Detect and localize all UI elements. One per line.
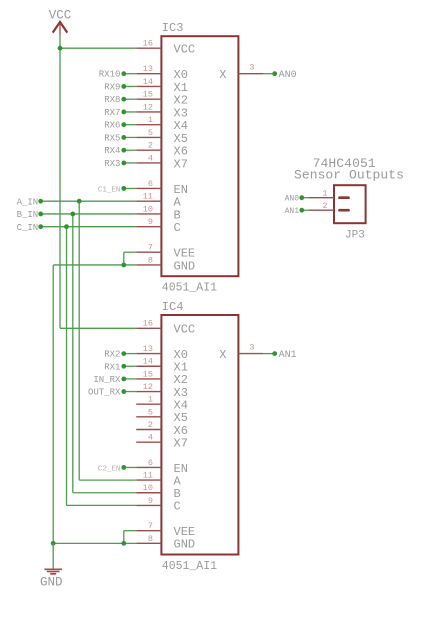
- node RX1: [121, 364, 126, 369]
- svg-text:VCC: VCC: [174, 323, 196, 337]
- svg-text:2: 2: [148, 141, 153, 151]
- wire AN1: [263, 353, 274, 355]
- svg-text:C_IN: C_IN: [17, 223, 39, 233]
- svg-text:AN0: AN0: [279, 70, 297, 81]
- IC4 pin 11 A: [136, 479, 161, 481]
- svg-text:13: 13: [143, 344, 153, 354]
- svg-text:RX7: RX7: [104, 108, 120, 118]
- node C1_EN: [121, 186, 126, 191]
- wire stub IN_RX: [124, 378, 136, 380]
- IC4 pin 4 X7: [136, 441, 161, 443]
- svg-text:7: 7: [148, 521, 153, 531]
- svg-text:15: 15: [143, 369, 153, 379]
- svg-text:IC3: IC3: [162, 21, 184, 35]
- svg-text:C1_EN: C1_EN: [98, 186, 121, 194]
- wire stub RX5: [124, 136, 136, 138]
- svg-text:1: 1: [148, 395, 153, 405]
- svg-text:VCC: VCC: [174, 43, 196, 57]
- IC3 pin 14 X1: [136, 85, 161, 87]
- IC4 pin 10 B: [136, 492, 161, 494]
- svg-text:OUT_RX: OUT_RX: [88, 388, 121, 398]
- svg-text:RX8: RX8: [104, 95, 120, 105]
- IC3 pin 6 EN: [136, 187, 161, 189]
- wire C_IN vertical to IC4: [66, 227, 68, 506]
- wire stub C1_EN: [124, 187, 136, 189]
- svg-text:9: 9: [148, 217, 153, 227]
- IC4 pin 5 X5: [136, 416, 161, 418]
- svg-text:C: C: [174, 500, 181, 514]
- svg-text:X7: X7: [174, 436, 188, 450]
- JP3 pin 2: [309, 209, 334, 211]
- IC4 pin 14 X1: [136, 365, 161, 367]
- wire IC4 GND to left: [53, 542, 136, 544]
- junction C_IN: [64, 224, 69, 229]
- wire B_IN to IC3: [41, 213, 137, 215]
- svg-text:C2_EN: C2_EN: [98, 465, 121, 473]
- node B_IN start: [38, 212, 43, 217]
- wire AN1 to JP3: [302, 209, 309, 211]
- IC4 pin 12 X3: [136, 391, 161, 393]
- node RX5: [121, 135, 126, 140]
- IC4 pin 2 X6: [136, 429, 161, 431]
- svg-text:8: 8: [148, 255, 153, 265]
- node RX2: [121, 351, 126, 356]
- wire AN0 to JP3: [302, 197, 309, 199]
- svg-text:IC4: IC4: [162, 300, 184, 314]
- svg-text:4051_AI1: 4051_AI1: [162, 560, 217, 573]
- node RX10: [121, 71, 126, 76]
- wire stub RX9: [124, 85, 136, 87]
- wire C_IN to IC4 pin: [67, 504, 137, 506]
- IC4 pin 1 X4: [136, 403, 161, 405]
- svg-text:5: 5: [148, 407, 153, 417]
- svg-text:AN0: AN0: [285, 195, 300, 204]
- connector JP3 body: [334, 185, 366, 223]
- junction GND net: [51, 541, 56, 546]
- node RX4: [121, 148, 126, 153]
- IC4 pin 6 EN: [136, 466, 161, 468]
- IC3 pin 2 X6: [136, 149, 161, 151]
- IC3 pin 3 X output: [238, 73, 263, 75]
- wire VCC to IC4 pin 16: [60, 327, 136, 329]
- wire stub RX10: [124, 73, 136, 75]
- svg-text:15: 15: [143, 90, 153, 100]
- IC3 pin 8 GND: [136, 264, 161, 266]
- IC3 pin 7 VEE: [136, 251, 161, 253]
- wire VCC net vertical: [59, 35, 61, 328]
- svg-text:AN1: AN1: [279, 350, 297, 361]
- node A_IN start: [38, 199, 43, 204]
- wire IC3 VEE drop: [124, 251, 136, 253]
- svg-text:3: 3: [249, 63, 254, 73]
- IC4 pin 7 VEE: [136, 530, 161, 532]
- IC4 pin 13 X0: [136, 353, 161, 355]
- svg-text:AN1: AN1: [285, 207, 300, 216]
- svg-text:RX3: RX3: [104, 159, 120, 169]
- IC4 pin 9 C: [136, 504, 161, 506]
- IC4 pin 15 X2: [136, 378, 161, 380]
- svg-text:RX5: RX5: [104, 133, 120, 143]
- wire A_IN to IC4 pin: [79, 479, 136, 481]
- svg-text:16: 16: [143, 39, 153, 49]
- IC3 pin 11 A: [136, 200, 161, 202]
- wire stub OUT_RX: [124, 391, 136, 393]
- svg-text:IN_RX: IN_RX: [93, 375, 121, 385]
- svg-text:1: 1: [322, 188, 327, 198]
- wire B_IN to IC4 pin: [73, 492, 136, 494]
- junction IC4 VEE/GND: [121, 541, 126, 546]
- junction A_IN: [77, 199, 82, 204]
- IC3 pin 9 C: [136, 226, 161, 228]
- IC3 pin 1 X4: [136, 124, 161, 126]
- wire C_IN to IC3: [41, 226, 137, 228]
- svg-text:4051_AI1: 4051_AI1: [162, 282, 217, 295]
- svg-text:RX9: RX9: [104, 82, 120, 92]
- node RX8: [121, 97, 126, 102]
- node OUT_RX: [121, 389, 126, 394]
- svg-text:A_IN: A_IN: [17, 197, 39, 207]
- svg-text:16: 16: [143, 319, 153, 329]
- svg-text:7: 7: [148, 243, 153, 253]
- svg-text:13: 13: [143, 64, 153, 74]
- junction B_IN: [70, 212, 75, 217]
- svg-text:GND: GND: [174, 538, 196, 552]
- node AN0 at JP3: [299, 195, 304, 200]
- wire stub RX4: [124, 149, 136, 151]
- IC4 pin 3 X output: [238, 353, 263, 355]
- svg-text:14: 14: [143, 77, 153, 87]
- svg-text:RX10: RX10: [99, 70, 121, 80]
- svg-text:4: 4: [148, 153, 153, 163]
- IC3 pin 15 X2: [136, 98, 161, 100]
- IC3 pin 4 X7: [136, 162, 161, 164]
- wire A_IN to IC3: [41, 200, 137, 202]
- wire stub RX3: [124, 162, 136, 164]
- svg-text:10: 10: [143, 204, 153, 214]
- svg-text:2: 2: [322, 201, 327, 211]
- svg-text:11: 11: [143, 192, 153, 202]
- IC4 pin 16 VCC: [136, 327, 161, 329]
- svg-text:6: 6: [148, 179, 153, 189]
- svg-text:6: 6: [148, 458, 153, 468]
- svg-text:X7: X7: [174, 157, 188, 171]
- wire stub RX2: [124, 353, 136, 355]
- IC3 pin 16 VCC: [136, 47, 161, 49]
- svg-text:JP3: JP3: [345, 229, 365, 241]
- IC3 pin 10 B: [136, 213, 161, 215]
- svg-text:2: 2: [148, 420, 153, 430]
- IC3 pin 12 X3: [136, 111, 161, 113]
- svg-text:RX4: RX4: [104, 146, 120, 156]
- wire AN0: [263, 73, 274, 75]
- svg-text:11: 11: [143, 471, 153, 481]
- op IC IC4 body: [161, 315, 238, 555]
- svg-text:12: 12: [143, 382, 153, 392]
- svg-text:4: 4: [148, 433, 153, 443]
- svg-text:RX1: RX1: [104, 362, 120, 372]
- wire VCC to IC3 pin 16: [60, 47, 136, 49]
- svg-text:10: 10: [143, 483, 153, 493]
- power symbol VCC: [49, 9, 72, 36]
- node RX6: [121, 122, 126, 127]
- wire GND net vertical: [52, 265, 54, 543]
- svg-text:RX2: RX2: [104, 350, 120, 360]
- wire stub RX8: [124, 98, 136, 100]
- svg-text:GND: GND: [40, 576, 63, 590]
- svg-text:B_IN: B_IN: [17, 210, 39, 220]
- svg-text:9: 9: [148, 496, 153, 506]
- svg-text:8: 8: [148, 534, 153, 544]
- svg-text:C: C: [174, 221, 181, 235]
- node RX9: [121, 84, 126, 89]
- node AN1: [272, 351, 277, 356]
- svg-text:X: X: [219, 348, 226, 362]
- JP3 pin 1: [309, 197, 334, 199]
- svg-text:GND: GND: [174, 259, 196, 273]
- wire B_IN vertical to IC4: [72, 214, 74, 493]
- svg-text:12: 12: [143, 102, 153, 112]
- junction VCC/IC3-16: [58, 46, 63, 51]
- svg-text:1: 1: [148, 115, 153, 125]
- wire stub RX1: [124, 365, 136, 367]
- svg-text:X: X: [219, 68, 226, 82]
- svg-text:Sensor Outputs: Sensor Outputs: [294, 168, 404, 183]
- IC4 pin 8 GND: [136, 542, 161, 544]
- node C_IN start: [38, 224, 43, 229]
- svg-text:RX6: RX6: [104, 121, 120, 131]
- wire to ground symbol: [52, 543, 54, 568]
- svg-text:5: 5: [148, 128, 153, 138]
- wire IC3 GND to left: [53, 264, 136, 266]
- node RX3: [121, 161, 126, 166]
- wire A_IN vertical to IC4: [78, 201, 80, 480]
- node IN_RX: [121, 377, 126, 382]
- node C2_EN: [121, 465, 126, 470]
- IC3 pin 13 X0: [136, 73, 161, 75]
- wire IC4 VEE drop: [124, 530, 136, 532]
- svg-text:3: 3: [249, 342, 254, 352]
- svg-text:14: 14: [143, 357, 153, 367]
- node AN1 at JP3: [299, 208, 304, 213]
- wire stub RX7: [124, 111, 136, 113]
- node RX7: [121, 110, 126, 115]
- junction IC3 VEE/GND: [121, 263, 126, 268]
- wire stub C2_EN: [124, 466, 136, 468]
- IC3 pin 5 X5: [136, 136, 161, 138]
- op IC IC3 body: [161, 36, 238, 276]
- node AN0: [272, 71, 277, 76]
- ground symbol: [40, 569, 63, 589]
- wire stub RX6: [124, 124, 136, 126]
